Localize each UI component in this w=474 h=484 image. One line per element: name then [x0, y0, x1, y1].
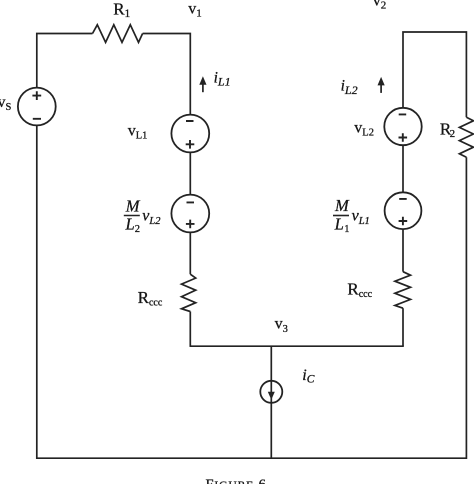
svg-text:iL2: iL2 — [341, 77, 358, 97]
svg-text:vL1: vL1 — [128, 122, 148, 141]
svg-text:vL2: vL2 — [354, 119, 374, 138]
wire: vL2 to M/L1 source — [402, 145, 404, 192]
wire: R2 down to bottom-right corner — [465, 157, 467, 459]
svg-text:v1: v1 — [188, 1, 202, 20]
wire: vS bottom, down left side, along bottom to right corner — [37, 125, 467, 458]
svg-text:M: M — [125, 196, 141, 215]
dependent source M/L2 vL2 — [171, 195, 209, 233]
svg-text:1: 1 — [344, 224, 349, 235]
wire: R1 to node v1 corner, down to vL1 — [143, 34, 191, 115]
dependent source M/L1 vL1 — [385, 192, 422, 229]
label M/L1 vL1 — [333, 196, 370, 235]
svg-text:vL1: vL1 — [352, 208, 370, 227]
wire: v3 down through iC to bottom rail — [270, 346, 272, 458]
dependent source vL1 — [171, 115, 209, 153]
svg-text:L: L — [125, 215, 135, 234]
svg-text:vL2: vL2 — [142, 208, 161, 228]
svg-text:FIGURE 6: FIGURE 6 — [206, 477, 267, 484]
svg-text:iL1: iL1 — [214, 69, 231, 88]
svg-text:Rccc: Rccc — [138, 288, 163, 308]
svg-text:iC: iC — [302, 367, 314, 386]
wire: top-left horizontal from vS up-corner to R1 — [37, 34, 93, 89]
current source iC — [260, 381, 282, 403]
wire: Rccc down to node v3 rail — [189, 312, 191, 347]
label M/L2 vL2 — [124, 196, 161, 235]
wire: M/L1 source to Rccc (right) — [402, 229, 404, 272]
resistor R1 — [93, 25, 143, 43]
wire: top-right corner, v2 down to vL2 — [403, 32, 466, 117]
svg-text:v2: v2 — [373, 0, 387, 12]
wire: vL1 to M/L2 source — [189, 152, 191, 194]
dependent source vL2 — [384, 108, 421, 145]
wire: bottom middle rail (node v3) — [190, 345, 404, 347]
svg-text:M: M — [334, 196, 350, 215]
svg-text:R2: R2 — [440, 119, 455, 140]
wire: Rccc (right) down to node v3 rail — [402, 308, 404, 346]
resistor Rccc (right) — [395, 272, 411, 309]
svg-text:v3: v3 — [275, 316, 288, 335]
current arrow iL1 — [199, 76, 206, 92]
svg-text:vS: vS — [0, 94, 12, 113]
svg-text:L: L — [334, 215, 344, 234]
svg-text:Rccc: Rccc — [347, 279, 372, 299]
resistor R2 — [459, 117, 473, 157]
svg-text:2: 2 — [135, 224, 140, 235]
svg-text:R1: R1 — [113, 0, 130, 20]
resistor Rccc (left) — [182, 274, 196, 311]
voltage source vS — [18, 88, 56, 126]
current arrow iL2 — [378, 77, 385, 93]
wire: M/L2 source to Rccc — [189, 232, 191, 274]
